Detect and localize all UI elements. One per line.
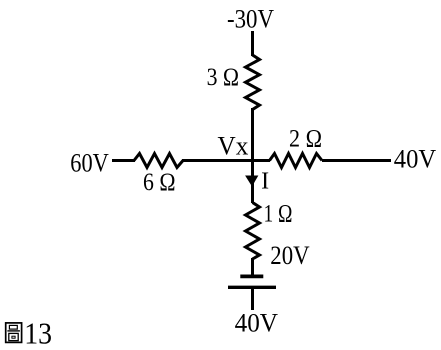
svg-text:-30V: -30V	[227, 5, 274, 34]
wire from node Vx to resistor 2ohm	[251, 159, 270, 162]
svg-text:I: I	[261, 169, 269, 195]
svg-text:1 Ω: 1 Ω	[264, 201, 293, 228]
wire from 6ohm resistor to node Vx	[182, 159, 254, 162]
resistor 3ohm (vertical zigzag)	[246, 55, 260, 109]
svg-text:3 Ω: 3 Ω	[207, 64, 240, 91]
caption glyph: Chinese character tu (figure) drawn as paths	[6, 323, 22, 343]
wire from 1ohm resistor to battery top plate	[251, 258, 254, 275]
resistor 6ohm (horizontal zigzag)	[134, 154, 183, 168]
resistor 1ohm (vertical zigzag)	[246, 203, 260, 260]
svg-text:13: 13	[24, 316, 52, 350]
wire from 3ohm resistor to node Vx	[251, 108, 254, 162]
svg-text:2 Ω: 2 Ω	[289, 126, 322, 153]
battery negative plate (short)	[240, 275, 263, 279]
svg-text:Vx: Vx	[218, 131, 249, 160]
svg-text:20V: 20V	[270, 241, 309, 270]
svg-text:40V: 40V	[394, 145, 437, 174]
wire from -30V terminal down to resistor 3ohm	[251, 31, 254, 56]
wire from 60V to resistor 6ohm	[112, 159, 135, 162]
svg-text:40V: 40V	[235, 309, 279, 338]
wire from 2ohm resistor to 40V terminal	[322, 159, 391, 162]
current arrow head (downward)	[246, 176, 258, 186]
svg-text:60V: 60V	[70, 149, 109, 178]
resistor 2ohm (horizontal zigzag)	[270, 154, 323, 168]
battery positive plate (long)	[228, 286, 276, 289]
wire from battery bottom plate down	[251, 288, 254, 310]
wire from node Vx down to resistor 1ohm	[251, 159, 254, 203]
svg-text:6 Ω: 6 Ω	[143, 169, 176, 196]
